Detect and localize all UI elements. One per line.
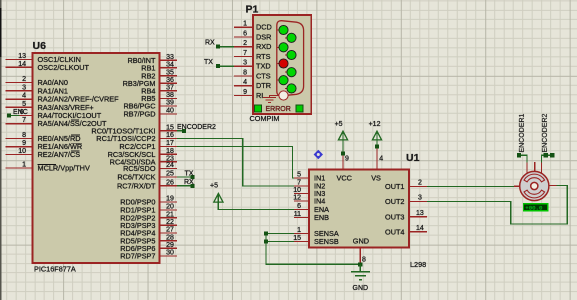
svg-text:37: 37 [166, 85, 174, 92]
svg-text:40: 40 [166, 108, 174, 115]
svg-text:22: 22 [166, 219, 174, 226]
U1 right pin names [385, 182, 404, 236]
svg-text:OUT3: OUT3 [385, 212, 404, 221]
P1 DB9 hole 3 TXD red [279, 59, 288, 68]
ERC marker [314, 150, 323, 159]
P1 DB9 hole 5 shield white [279, 91, 288, 100]
svg-text:12: 12 [293, 195, 301, 202]
svg-text:2: 2 [243, 40, 247, 47]
svg-text:RB7/PGD: RB7/PGD [123, 110, 155, 119]
svg-text:26: 26 [166, 179, 174, 186]
svg-text:U6: U6 [33, 40, 47, 52]
microcontroller U6 body [33, 40, 160, 274]
svg-text:RXD: RXD [256, 42, 271, 51]
svg-text:14: 14 [416, 225, 424, 232]
svg-text:8: 8 [243, 70, 247, 77]
svg-text:RX: RX [184, 179, 194, 186]
svg-text:13: 13 [416, 210, 424, 217]
wire ENCODER1 at RA4 pin 6 [7, 109, 28, 117]
wire RX to P1 RXD pin 2 [205, 40, 234, 49]
svg-text:RI: RI [256, 91, 263, 100]
svg-text:TX: TX [185, 170, 194, 177]
P1 pin numbers [243, 21, 247, 96]
svg-text:10: 10 [293, 187, 301, 194]
svg-text:+5: +5 [210, 183, 218, 190]
svg-text:14: 14 [18, 61, 26, 68]
wire TX to P1 TXD pin 3 [204, 59, 234, 68]
svg-text:5: 5 [22, 101, 26, 108]
svg-text:3: 3 [22, 84, 26, 91]
svg-text:+5: +5 [335, 121, 343, 128]
svg-text:28: 28 [166, 234, 174, 241]
svg-text:VCC: VCC [337, 173, 352, 182]
svg-text:2: 2 [22, 76, 26, 83]
svg-text:7: 7 [243, 50, 247, 57]
svg-text:5: 5 [297, 172, 301, 179]
svg-text:DCD: DCD [256, 23, 272, 32]
svg-text:8: 8 [362, 257, 366, 264]
motor rpm display [523, 203, 549, 211]
svg-text:6: 6 [20, 109, 24, 116]
U6 left pins [6, 60, 33, 169]
svg-text:+00.0: +00.0 [525, 204, 543, 211]
svg-text:1: 1 [297, 227, 301, 234]
svg-text:30: 30 [166, 250, 174, 257]
wire VS to +12 [369, 121, 382, 148]
svg-text:L298: L298 [410, 260, 426, 269]
P1 DB9 hole 4 DTR [279, 76, 288, 85]
U1 left pin numbers [293, 172, 301, 243]
svg-text:9: 9 [22, 140, 26, 147]
svg-text:TX: TX [204, 59, 213, 66]
svg-text:20: 20 [166, 204, 174, 211]
driver U1 body [309, 152, 426, 269]
U1 left pin names [314, 174, 339, 247]
svg-text:38: 38 [166, 92, 174, 99]
svg-text:OUT4: OUT4 [385, 228, 404, 237]
svg-text:24: 24 [166, 162, 174, 169]
svg-text:SENSB: SENSB [314, 237, 339, 246]
U1 bottom pin GND [353, 236, 369, 263]
svg-text:DSR: DSR [256, 33, 271, 42]
svg-text:15: 15 [166, 124, 174, 131]
U1 top pins VCC VS [337, 147, 384, 183]
svg-text:29: 29 [166, 242, 174, 249]
svg-text:27: 27 [166, 227, 174, 234]
U1 right pins [409, 187, 427, 232]
wire OUT2 loop to motor right terminal [427, 186, 567, 225]
P1 DB9 hole 2 RXD [279, 43, 288, 52]
motor with encoder [514, 162, 557, 201]
U1 right pin numbers [416, 180, 424, 232]
svg-text:16: 16 [166, 132, 174, 139]
svg-text:34: 34 [166, 61, 174, 68]
svg-text:DTR: DTR [256, 81, 271, 90]
svg-text:OSC2/CLKOUT: OSC2/CLKOUT [38, 63, 90, 72]
svg-text:35: 35 [166, 69, 174, 76]
terminal ENCODER1 [517, 114, 527, 163]
svg-text:VS: VS [371, 173, 381, 182]
wire OUT1 to motor left terminal [427, 186, 514, 188]
wire ENCODER2 stub at RC0 pin 15 [177, 124, 216, 133]
wire TX stub at RC6 pin 25 [177, 170, 194, 179]
svg-text:7: 7 [22, 117, 26, 124]
svg-text:RX: RX [205, 40, 215, 47]
U1 left pins [294, 178, 309, 242]
svg-text:9: 9 [243, 89, 247, 96]
P1 error indicator squares [255, 105, 262, 112]
U6 right pin numbers [166, 54, 174, 257]
svg-text:19: 19 [166, 196, 174, 203]
svg-text:3: 3 [243, 60, 247, 67]
junction at U1 GND pin [358, 262, 362, 271]
svg-text:25: 25 [166, 171, 174, 178]
svg-text:33: 33 [166, 54, 174, 61]
svg-text:15: 15 [293, 235, 301, 242]
svg-text:13: 13 [18, 53, 26, 60]
svg-text:17: 17 [166, 140, 174, 147]
svg-text:4: 4 [243, 79, 247, 86]
svg-text:RD7/PSP7: RD7/PSP7 [120, 252, 155, 261]
P1 left pins [234, 27, 253, 95]
svg-text:GND: GND [353, 236, 369, 245]
svg-text:RTS: RTS [256, 52, 271, 61]
ground symbol [351, 272, 370, 280]
wire VCC to +5 [335, 121, 348, 155]
wire RC1/CCP2 to U1 IN2 [177, 139, 294, 187]
svg-text:3: 3 [418, 195, 422, 202]
U6 right pins [160, 60, 178, 256]
svg-text:6: 6 [243, 31, 247, 38]
svg-text:18: 18 [166, 148, 174, 155]
svg-text:P1: P1 [246, 4, 259, 16]
svg-text:RC6/TX/CK: RC6/TX/CK [117, 173, 155, 182]
U6 left pin names [38, 55, 120, 173]
P1 DB9 shell [277, 21, 304, 96]
svg-text:2: 2 [418, 180, 422, 187]
svg-text:ERROR: ERROR [266, 106, 291, 113]
U6 right pin names [91, 56, 156, 261]
sheet edge [0, 0, 2, 300]
svg-text:TXD: TXD [256, 62, 271, 71]
U6 left pin numbers [18, 53, 26, 169]
P1 DB9 hole 7 RTS [287, 50, 296, 59]
svg-text:4: 4 [22, 93, 26, 100]
P1 DB9 pin link lines [277, 30, 292, 88]
P1 DB9 hole 9 RI [287, 84, 296, 93]
svg-text:+12: +12 [369, 121, 381, 128]
P1 DB9 hole 6 DSR [287, 33, 296, 42]
svg-text:CTS: CTS [256, 72, 271, 81]
svg-text:21: 21 [166, 211, 174, 218]
svg-text:PIC16F877A: PIC16F877A [34, 265, 76, 274]
svg-text:7: 7 [297, 180, 301, 187]
svg-text:4: 4 [379, 155, 383, 162]
svg-text:36: 36 [166, 77, 174, 84]
svg-text:10: 10 [18, 148, 26, 155]
svg-text:11: 11 [294, 211, 301, 218]
svg-text:COMPIM: COMPIM [250, 114, 280, 123]
svg-text:1: 1 [243, 21, 247, 28]
svg-text:ENCODER2: ENCODER2 [177, 124, 216, 131]
svg-text:8: 8 [22, 132, 26, 139]
terminal ENCODER2 [542, 114, 555, 163]
svg-text:OUT1: OUT1 [385, 182, 404, 191]
svg-text:6: 6 [297, 203, 301, 210]
svg-text:1: 1 [22, 162, 26, 169]
svg-text:OUT2: OUT2 [385, 197, 404, 206]
svg-text:9: 9 [345, 155, 349, 162]
wire RX stub at RC7 pin 26 [177, 179, 194, 188]
svg-text:U1: U1 [406, 152, 420, 164]
svg-text:39: 39 [166, 100, 174, 107]
P1 DB9 hole 8 CTS [287, 68, 296, 77]
svg-text:RC7/RX/DT: RC7/RX/DT [117, 181, 156, 190]
power +5 terminal for U1 ENA [210, 183, 294, 210]
connector P1 body [246, 4, 312, 123]
svg-text:GND: GND [353, 285, 369, 292]
wire SENSA SENSB to ground rail [264, 232, 360, 265]
P1 shield ground [263, 96, 279, 103]
svg-text:ENB: ENB [314, 213, 329, 222]
P1 pin names [256, 23, 272, 100]
wire RC2/CCP1 to U1 IN1 [177, 147, 294, 179]
P1 DB9 hole 1 DCD [279, 25, 288, 34]
